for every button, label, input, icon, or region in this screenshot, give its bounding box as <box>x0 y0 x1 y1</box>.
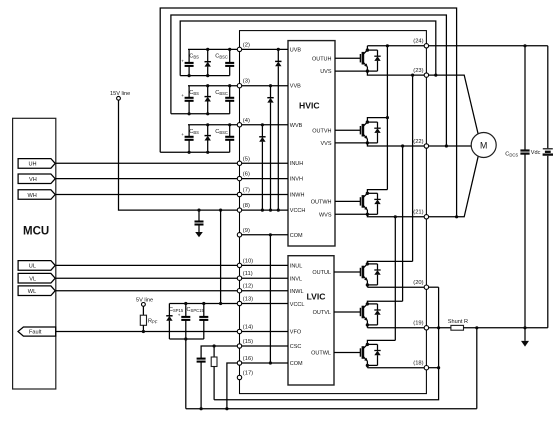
wire UVS sense and U emitter rail to pin 23 <box>335 71 426 75</box>
svg-text:(20): (20) <box>413 280 423 286</box>
wire WH from MCU to pin 7 <box>56 194 240 196</box>
pin 19 <box>413 321 428 330</box>
svg-text:MCU: MCU <box>23 226 49 238</box>
svg-text:(13): (13) <box>243 297 253 303</box>
wire pin 23 to motor U terminal <box>426 75 478 135</box>
wire pin 21 to motor W terminal <box>426 156 478 217</box>
svg-text:INWH: INWH <box>290 193 305 199</box>
wire CSP15 group bottom rail to ground bus <box>169 337 203 408</box>
svg-text:M: M <box>480 140 487 150</box>
svg-text:VVB: VVB <box>290 84 301 90</box>
5V line supply terminal <box>136 298 153 307</box>
pin 12 <box>237 284 253 293</box>
pin 18 <box>413 361 428 370</box>
wire pin3 to HVIC VVB <box>240 85 289 87</box>
ground symbol at shunt return <box>521 328 529 347</box>
wire VCCH to VCCL vertical link <box>220 210 222 303</box>
pin 9 <box>237 228 250 237</box>
svg-text:(2): (2) <box>243 42 250 48</box>
IGBT Q6 W-phase low side with freewheel diode <box>334 340 395 367</box>
svg-text:Shunt R: Shunt R <box>448 319 468 325</box>
capacitor CSC filter to ground <box>197 346 240 409</box>
signal tag WH <box>18 190 55 200</box>
wire VVS sense and V emitter rail to pin 22 <box>335 143 426 146</box>
wire pin13 VCCL row with 5V/15V decoupling taps <box>169 303 288 305</box>
wire pin10 to LVIC INUL <box>240 264 289 266</box>
wire pin 18 to N node <box>426 367 438 369</box>
pin 21 <box>413 210 428 219</box>
svg-text:CBS: CBS <box>189 129 199 135</box>
MCU U1 controller block <box>13 118 56 389</box>
wire HVIC COM to LVIC COM vertical link <box>269 235 271 363</box>
bootstrap diode DBS-W from VCCH to pin4 <box>259 123 265 211</box>
wire pin7 to HVIC INWH <box>240 194 289 196</box>
junction VCCH to VCCL link <box>219 209 222 212</box>
svg-text:(14): (14) <box>243 325 253 331</box>
svg-text:(22): (22) <box>413 139 423 145</box>
IPM module package outline <box>240 31 427 394</box>
wire 15V line down to VCCH row <box>119 100 240 210</box>
svg-text:(3): (3) <box>243 79 250 85</box>
svg-text:+: + <box>181 93 184 98</box>
svg-text:CBS: CBS <box>189 90 199 96</box>
IGBT Q1 U-phase high side with freewheel diode <box>335 46 381 73</box>
wire LVIC COM external to ground bus <box>225 363 239 410</box>
pin 2 <box>237 42 250 51</box>
pin 4 <box>237 118 250 127</box>
wire N node vertical joining pins 20 19 18 <box>438 287 440 368</box>
wire U low emitter rail to pin 20 <box>367 286 426 288</box>
wire pin8 to HVIC VCCH <box>240 209 289 211</box>
svg-text:Vdc: Vdc <box>531 150 541 156</box>
pin 6 <box>237 172 250 181</box>
svg-text:+: + <box>178 312 181 317</box>
svg-text:Fault: Fault <box>29 330 42 336</box>
IGBT Q4 U-phase low side with freewheel diode <box>334 261 413 287</box>
svg-text:OUTWH: OUTWH <box>311 200 332 206</box>
signal tag VH <box>18 174 55 184</box>
pin 20 <box>413 280 428 289</box>
IGBT Q2 V-phase high side with freewheel diode <box>335 118 387 145</box>
wire pin9 to HVIC COM <box>240 234 289 236</box>
svg-text:(21): (21) <box>413 210 423 216</box>
wire UL from MCU to pin 10 <box>56 264 240 266</box>
pin 24 <box>413 39 428 48</box>
svg-text:(4): (4) <box>243 118 250 124</box>
wire P bus vertical to V and W high-side collectors <box>386 46 388 190</box>
svg-text:(18): (18) <box>413 361 423 367</box>
HVIC U2 high-side driver block <box>288 41 335 246</box>
resistor RSC from CSC line to N shunt node <box>211 344 217 399</box>
pin 14 <box>237 325 253 334</box>
pin 22 <box>413 139 428 148</box>
wire pin4 to HVIC WVB <box>240 124 289 126</box>
svg-text:(12): (12) <box>243 284 253 290</box>
svg-text:WL: WL <box>28 289 36 295</box>
svg-text:(10): (10) <box>243 258 253 264</box>
svg-text:INVL: INVL <box>290 276 302 282</box>
wire pin12 to LVIC INWL <box>240 290 289 292</box>
pin 7 <box>237 188 250 197</box>
electrolytic capacitor CSP15 on VCCL rail <box>169 302 190 339</box>
wire V-phase wrap from pin 22 around top to CBS-V negative rail <box>171 15 447 146</box>
wire pin 20 to N node <box>426 286 438 288</box>
signal tag VL <box>18 273 55 283</box>
wire WVS sense and W emitter rail to pin 21 <box>335 214 426 217</box>
svg-text:OUTUH: OUTUH <box>312 56 332 62</box>
svg-text:INVH: INVH <box>290 177 303 183</box>
zener DSP on VCCL rail <box>166 304 172 340</box>
svg-text:COM: COM <box>290 233 303 239</box>
svg-text:INUH: INUH <box>290 161 303 167</box>
svg-text:CBSC: CBSC <box>215 90 228 96</box>
wire V low emitter rail to pin 19 <box>367 327 426 329</box>
svg-text:COM: COM <box>290 361 303 367</box>
pin 11 <box>237 271 252 280</box>
bootstrap group W : capacitor CBS, zener, capacitor CBSC between pins 4 and W-phase <box>160 123 239 154</box>
svg-text:UL: UL <box>29 264 36 270</box>
wire U-phase wrap from pin 23 around top to CBS-U negative rail <box>180 21 436 76</box>
pin 16 <box>237 356 253 365</box>
svg-text:(8): (8) <box>243 203 250 209</box>
svg-text:VVS: VVS <box>320 141 331 147</box>
N shunt-node wire along the bottom <box>214 368 439 400</box>
bootstrap diode DBS-V from VCCH to pin3 <box>267 84 273 212</box>
signal tag UH <box>18 159 55 169</box>
svg-text:OUTWL: OUTWL <box>311 351 331 357</box>
wire pin 22 to motor V terminal <box>426 145 471 147</box>
wire VL from MCU to pin 11 <box>56 277 240 279</box>
svg-text:OUTVL: OUTVL <box>313 310 331 316</box>
wire pin11 to LVIC INVL <box>240 277 289 279</box>
svg-text:VFO: VFO <box>290 330 302 336</box>
capacitor CDCS dc-link <box>505 44 529 329</box>
svg-text:CBS: CBS <box>189 54 199 60</box>
svg-text:OUTUL: OUTUL <box>312 270 331 276</box>
wire WL from MCU to pin 12 <box>56 290 240 292</box>
decoupling capacitor on VCCH with ground <box>195 209 204 233</box>
svg-text:VH: VH <box>29 177 37 183</box>
wire Fault from MCU to pin 14 <box>56 331 240 333</box>
svg-text:INUL: INUL <box>290 264 303 270</box>
svg-text:(19): (19) <box>413 321 423 327</box>
wire shunt output down to ground bus <box>476 328 478 409</box>
svg-text:CBSC: CBSC <box>215 54 228 60</box>
pin 5 <box>237 156 250 165</box>
IGBT Q3 W-phase high side with freewheel diode <box>335 190 387 216</box>
svg-text:UVB: UVB <box>290 47 302 53</box>
wire pin6 to HVIC INVH <box>240 178 289 180</box>
svg-text:(23): (23) <box>413 68 423 74</box>
resistor Shunt R on pin 19 line <box>426 319 468 330</box>
pin 8 <box>237 203 250 212</box>
signal tag Fault (arrow points left) <box>18 327 56 336</box>
15V line supply terminal <box>110 91 130 100</box>
svg-text:OUTVH: OUTVH <box>312 128 331 134</box>
bootstrap group U : capacitor CBS, zener, capacitor CBSC between pins 2 and U-phase <box>180 48 239 77</box>
svg-text:(16): (16) <box>243 356 253 362</box>
wire pin5 to HVIC INUH <box>240 162 289 164</box>
svg-text:(5): (5) <box>243 156 250 162</box>
pin 17 <box>237 371 253 380</box>
ground symbol below VCCH decoupling capacitor <box>195 232 203 237</box>
signal tag UL <box>18 261 55 271</box>
resistor RPF fault pull-up <box>140 306 158 331</box>
pin 23 <box>413 68 428 77</box>
wire W low collector up to W phase node <box>394 217 396 341</box>
svg-text:VL: VL <box>29 276 36 282</box>
wire pin14 to LVIC VFO <box>240 331 289 333</box>
svg-text:VCCL: VCCL <box>290 302 305 308</box>
svg-text:CBSC: CBSC <box>215 129 228 135</box>
svg-text:+: + <box>181 132 184 137</box>
wire W low emitter rail to pin 18 <box>367 367 426 369</box>
svg-text:+: + <box>181 58 184 63</box>
svg-text:(15): (15) <box>243 339 253 345</box>
wire shunt output to ground and Vdc- <box>464 327 548 329</box>
wire UH from MCU to pin 5 <box>56 162 240 164</box>
svg-text:WH: WH <box>28 193 37 199</box>
svg-text:15V line: 15V line <box>110 91 130 97</box>
signal tag WL <box>18 286 55 296</box>
LVIC U3 low-side driver block <box>288 256 334 385</box>
wire pin15 to LVIC CSC <box>240 345 289 347</box>
pin 15 <box>237 339 253 348</box>
svg-text:(9): (9) <box>243 228 250 234</box>
wire W-phase wrap from pin 21 around top to CBS-W negative rail <box>160 8 456 217</box>
motor M <box>471 133 496 158</box>
pin 3 <box>237 79 250 88</box>
svg-text:INWL: INWL <box>290 289 304 295</box>
junction RPF on Fault wire <box>142 330 145 333</box>
svg-text:(6): (6) <box>243 172 250 178</box>
svg-text:UVS: UVS <box>320 69 332 75</box>
wire pin2 to HVIC UVB <box>240 48 289 50</box>
svg-text:VCCH: VCCH <box>290 208 306 214</box>
bootstrap group V : capacitor CBS, zener, capacitor CBSC between pins 3 and V-phase <box>171 84 240 115</box>
wire U low collector up to U phase node <box>412 75 414 261</box>
pin 13 <box>237 297 253 306</box>
ceramic capacitor CSPC15 on VCCL rail <box>187 302 209 339</box>
svg-text:(17): (17) <box>243 371 253 377</box>
wire P bus from U collector to pin 24 and Vdc+ <box>367 45 547 47</box>
svg-text:WVS: WVS <box>319 212 332 218</box>
svg-text:CSC: CSC <box>290 344 302 350</box>
wire pin16 to LVIC COM <box>240 362 289 364</box>
svg-text:CSPC15: CSPC15 <box>187 307 205 313</box>
wire V low collector up to V phase node <box>402 146 404 301</box>
bootstrap diode DBS-U from VCCH to pin2 <box>275 48 281 212</box>
svg-text:CSP15: CSP15 <box>169 307 184 313</box>
svg-text:WVB: WVB <box>290 123 303 129</box>
svg-text:(24): (24) <box>413 39 423 45</box>
pin 10 <box>237 258 253 267</box>
svg-text:RPF: RPF <box>148 318 158 324</box>
svg-text:(7): (7) <box>243 188 250 194</box>
battery Vdc <box>531 46 553 328</box>
svg-text:HVIC: HVIC <box>299 101 320 111</box>
wire VH from MCU to pin 6 <box>56 178 240 180</box>
svg-text:(11): (11) <box>243 271 253 277</box>
ground bus wire along the bottom <box>186 408 477 410</box>
svg-text:LVIC: LVIC <box>307 292 326 302</box>
svg-text:CDCS: CDCS <box>505 151 518 157</box>
svg-text:UH: UH <box>29 162 37 168</box>
IGBT Q5 V-phase low side with freewheel diode <box>334 301 403 328</box>
